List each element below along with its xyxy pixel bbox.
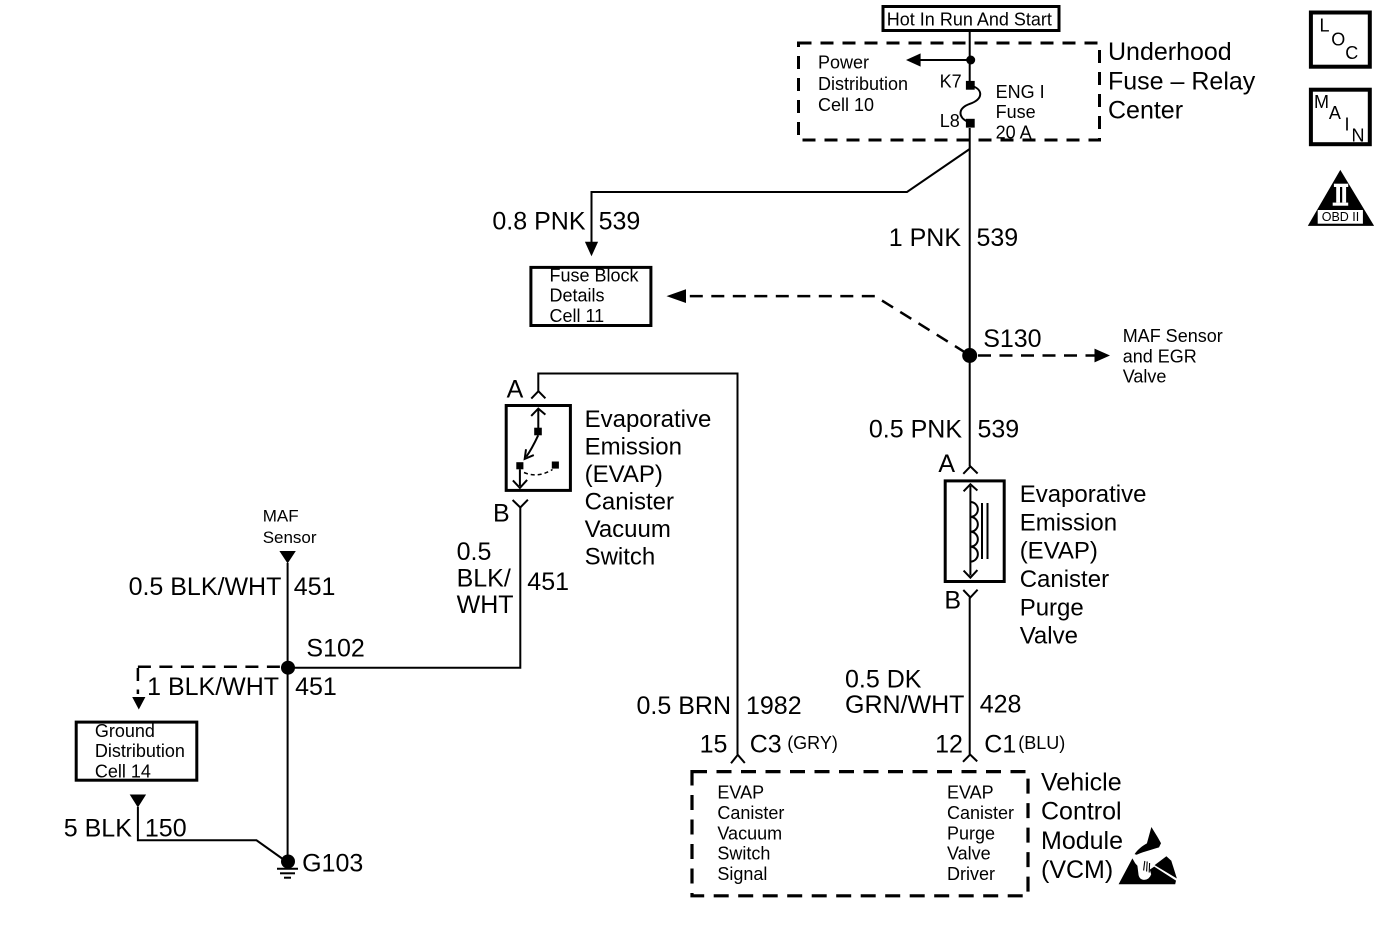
svg-text:Cell 10: Cell 10	[818, 95, 874, 115]
svg-text:Valve: Valve	[1020, 623, 1078, 650]
svg-text:539: 539	[978, 415, 1020, 443]
svg-text:Fuse: Fuse	[996, 102, 1036, 122]
svg-text:20 A: 20 A	[996, 122, 1032, 142]
svg-text:C: C	[1345, 43, 1358, 63]
svg-text:0.5 BRN: 0.5 BRN	[637, 692, 731, 720]
svg-text:Control: Control	[1041, 798, 1122, 826]
svg-text:G103: G103	[302, 850, 363, 878]
svg-text:EVAP: EVAP	[717, 783, 764, 803]
svg-text:451: 451	[527, 568, 569, 596]
svg-text:Module: Module	[1041, 827, 1123, 855]
svg-text:0.8 PNK: 0.8 PNK	[492, 207, 585, 235]
svg-text:B: B	[944, 587, 961, 615]
svg-text:150: 150	[145, 815, 187, 843]
svg-text:BLK/: BLK/	[457, 565, 511, 593]
svg-text:539: 539	[599, 207, 641, 235]
svg-text:EVAP: EVAP	[947, 783, 994, 803]
svg-text:0.5 BLK/WHT: 0.5 BLK/WHT	[129, 573, 282, 601]
svg-text:Sensor: Sensor	[263, 528, 317, 547]
svg-text:Evaporative: Evaporative	[585, 406, 712, 433]
svg-text:C3: C3	[750, 730, 782, 758]
svg-text:A: A	[507, 376, 524, 404]
svg-text:Emission: Emission	[1020, 509, 1117, 536]
svg-text:5 BLK: 5 BLK	[64, 815, 132, 843]
svg-text:Center: Center	[1108, 96, 1183, 124]
svg-text:C1: C1	[984, 731, 1016, 759]
svg-text:451: 451	[295, 673, 337, 701]
svg-text:OBD II: OBD II	[1322, 210, 1360, 224]
svg-text:(EVAP): (EVAP)	[1020, 538, 1098, 565]
svg-text:GRN/WHT: GRN/WHT	[845, 691, 964, 719]
svg-text:Canister: Canister	[947, 803, 1014, 823]
svg-text:Valve: Valve	[947, 844, 991, 864]
svg-text:Ground: Ground	[95, 721, 155, 741]
svg-text:1 BLK/WHT: 1 BLK/WHT	[147, 673, 279, 701]
svg-text:Switch: Switch	[717, 844, 770, 864]
svg-text:Cell 14: Cell 14	[95, 761, 151, 781]
svg-text:Canister: Canister	[717, 803, 784, 823]
svg-text:(EVAP): (EVAP)	[585, 461, 663, 488]
svg-text:K7: K7	[940, 72, 962, 92]
svg-text:A: A	[938, 450, 955, 478]
svg-text:Underhood: Underhood	[1108, 38, 1232, 66]
svg-text:539: 539	[977, 224, 1019, 252]
svg-text:B: B	[493, 500, 510, 528]
svg-text:Evaporative: Evaporative	[1020, 481, 1147, 508]
svg-text:Driver: Driver	[947, 864, 995, 884]
svg-text:1 PNK: 1 PNK	[889, 224, 962, 252]
svg-text:Distribution: Distribution	[95, 741, 185, 761]
svg-text:N: N	[1352, 126, 1365, 146]
svg-text:and EGR: and EGR	[1123, 346, 1197, 366]
svg-text:Canister: Canister	[585, 489, 674, 516]
svg-text:ENG I: ENG I	[996, 82, 1045, 102]
svg-text:Fuse – Relay: Fuse – Relay	[1108, 67, 1256, 95]
svg-text:MAF: MAF	[263, 507, 299, 526]
svg-text:(BLU): (BLU)	[1018, 733, 1065, 753]
svg-text:O: O	[1331, 30, 1345, 50]
svg-text:1982: 1982	[746, 692, 802, 720]
svg-text:Purge: Purge	[1020, 594, 1084, 621]
svg-text:Emission: Emission	[585, 434, 682, 461]
svg-text:Details: Details	[550, 286, 605, 306]
svg-text:M: M	[1314, 92, 1329, 112]
svg-text:I: I	[1345, 115, 1350, 135]
svg-text:(VCM): (VCM)	[1041, 856, 1113, 884]
svg-text:451: 451	[294, 573, 336, 601]
svg-text:0.5 PNK: 0.5 PNK	[869, 415, 962, 443]
svg-text:Vacuum: Vacuum	[717, 823, 782, 843]
svg-text:WHT: WHT	[457, 591, 514, 619]
svg-text:Purge: Purge	[947, 823, 995, 843]
svg-text:Vehicle: Vehicle	[1041, 768, 1122, 796]
svg-text:Signal: Signal	[717, 864, 767, 884]
svg-text:Fuse Block: Fuse Block	[550, 266, 640, 286]
svg-text:15: 15	[700, 730, 728, 758]
svg-text:S102: S102	[306, 634, 364, 662]
svg-text:Switch: Switch	[585, 544, 656, 571]
svg-text:Canister: Canister	[1020, 566, 1109, 593]
svg-text:Distribution: Distribution	[818, 74, 908, 94]
svg-text:12: 12	[935, 731, 963, 759]
svg-text:Power: Power	[818, 53, 869, 73]
svg-text:S130: S130	[983, 325, 1041, 353]
svg-text:(GRY): (GRY)	[787, 733, 838, 753]
svg-text:L8: L8	[940, 111, 960, 131]
svg-text:Valve: Valve	[1123, 367, 1167, 387]
svg-text:Cell 11: Cell 11	[550, 306, 605, 326]
svg-text:Vacuum: Vacuum	[585, 516, 671, 543]
svg-text:0.5: 0.5	[457, 538, 492, 566]
svg-text:MAF Sensor: MAF Sensor	[1123, 326, 1223, 346]
svg-text:A: A	[1329, 103, 1341, 123]
svg-text:428: 428	[980, 691, 1022, 719]
svg-text:L: L	[1320, 16, 1330, 36]
svg-text:Hot In Run And Start: Hot In Run And Start	[887, 9, 1052, 29]
svg-text:0.5 DK: 0.5 DK	[845, 666, 922, 694]
